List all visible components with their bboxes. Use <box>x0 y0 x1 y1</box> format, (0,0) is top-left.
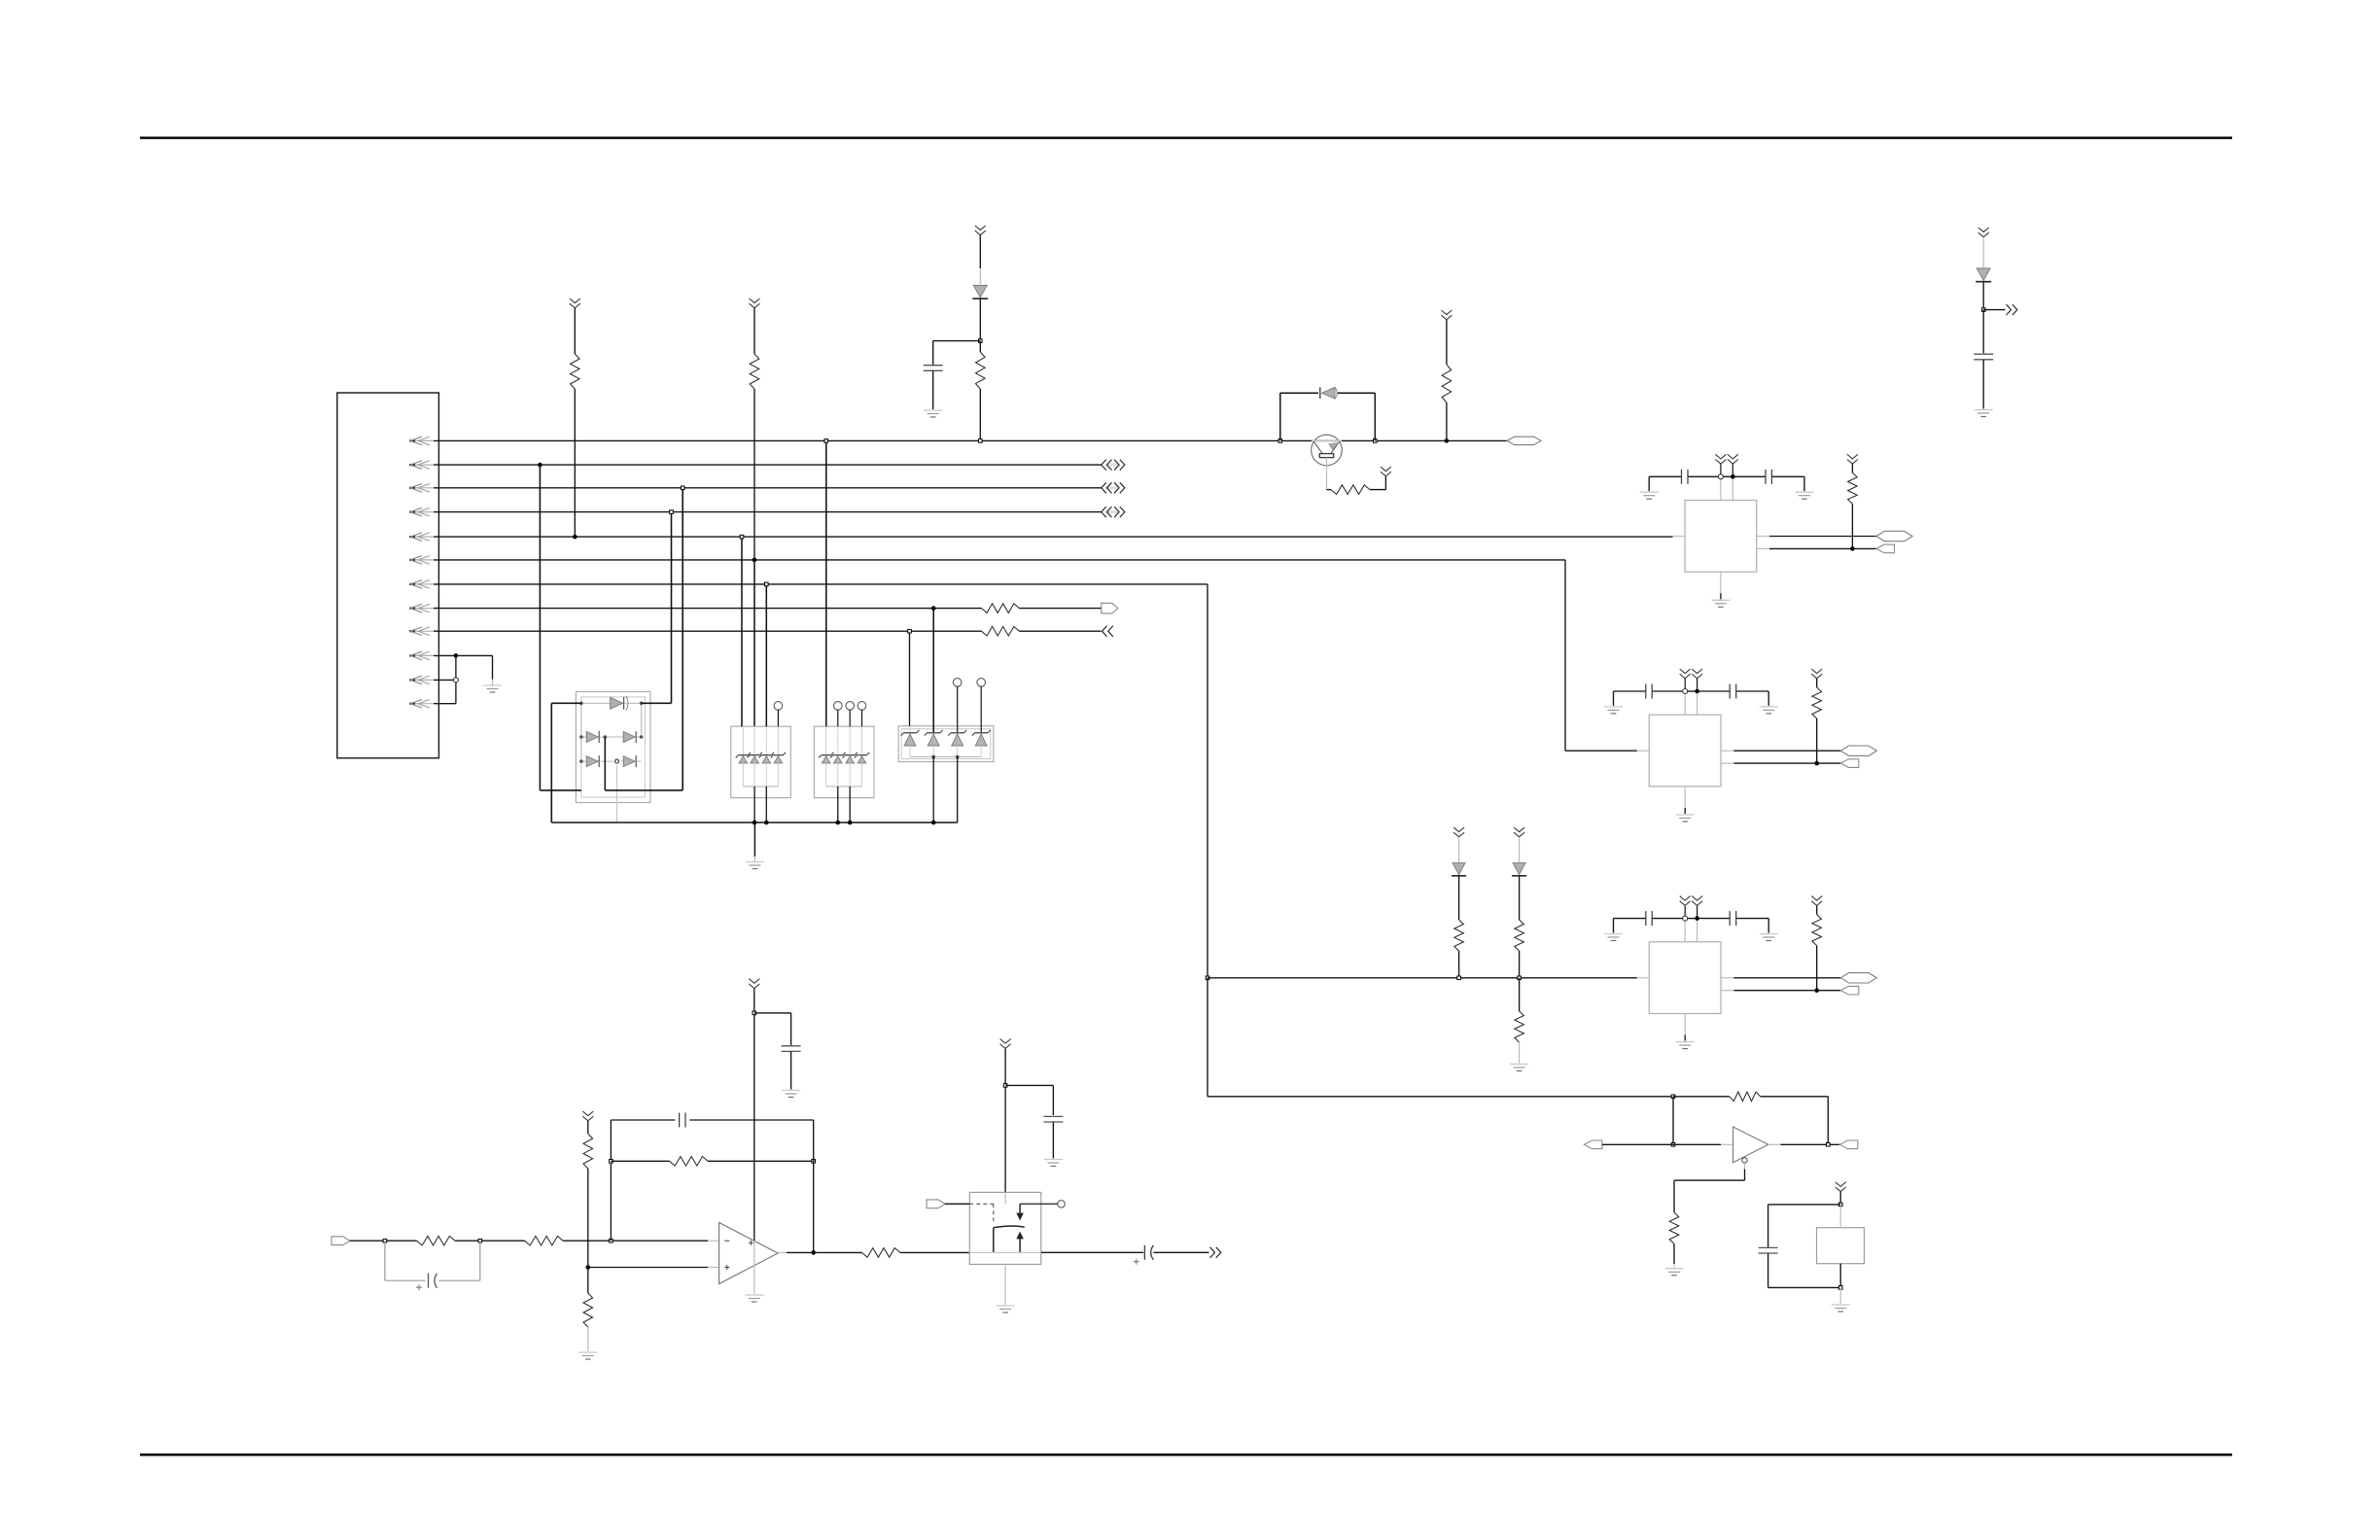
wire U4 fb vertical <box>610 1120 612 1241</box>
offpage connector net4 <box>1102 507 1125 517</box>
wire U5 minus input <box>1674 1163 1745 1180</box>
op-amp U4 <box>719 1223 779 1284</box>
wire bridge internal down <box>604 737 606 790</box>
diode D23 <box>1512 837 1526 876</box>
array ZA1 zener D12 <box>759 726 774 787</box>
junction ZA3 bus <box>931 821 936 825</box>
wire net6 (pin6 row) <box>434 559 1565 561</box>
wire gnd right U2 <box>1767 691 1769 706</box>
capacitor C9a <box>1646 684 1652 699</box>
wire net9 to ZA3 <box>909 631 911 732</box>
array ZA3 package <box>898 726 994 762</box>
wire net9 (pin9 row) <box>434 630 982 632</box>
junction net2 drop <box>538 463 542 468</box>
junction rail U3 b <box>1695 916 1699 921</box>
ground C5 <box>782 1091 800 1098</box>
switch SW1 contacts <box>969 1192 1065 1252</box>
switch SW1 body <box>969 1192 1041 1264</box>
ground bus symbol <box>746 862 764 869</box>
junction rail U3 a <box>1683 916 1688 921</box>
power arrow U1 b <box>1728 454 1738 464</box>
junction SW1 power <box>1003 1084 1007 1088</box>
pin 4 arrow <box>409 507 434 516</box>
wire U3 gnd stub <box>1684 1014 1686 1041</box>
array ZA2 rail <box>826 786 862 787</box>
wire pin10 to ground <box>456 655 493 684</box>
ground R20 <box>578 1352 597 1359</box>
wire U4 in c <box>563 1240 719 1242</box>
bridge diode D7 <box>605 731 641 743</box>
ground bus stem <box>753 822 755 861</box>
ground C6 <box>1044 1160 1063 1167</box>
wire U3 input stub <box>1637 977 1650 979</box>
power arrow R5 <box>1441 310 1452 320</box>
resistor R13 <box>1515 978 1524 1064</box>
ground U1 left <box>1640 492 1659 499</box>
wire U5 fb tap <box>1672 1097 1674 1145</box>
net tag U4 input <box>332 1237 350 1245</box>
junction node A <box>979 339 983 343</box>
wire net7 (pin7 row) <box>434 583 1207 585</box>
wire net8 to ZA3 <box>932 609 934 732</box>
junction rail U2 b <box>1695 689 1699 694</box>
array ZA2 zener D17 <box>855 726 869 787</box>
junction R3/net1 <box>979 439 983 443</box>
offpage connector net3 <box>1102 482 1125 493</box>
resistor R18 (U4 feedback) <box>611 1157 813 1167</box>
wire net2 (pin2 row) <box>434 464 1102 466</box>
power arrow D1 <box>975 226 986 235</box>
wire gnd left U2 <box>1613 691 1615 706</box>
wire U6 power <box>1839 1192 1841 1205</box>
nc pins ZA3 <box>953 679 985 732</box>
power arrow D23 <box>1514 827 1524 837</box>
wire U4 output <box>778 1251 861 1253</box>
junction U3 out2 <box>1814 988 1819 993</box>
net tag net1 <box>1507 437 1541 444</box>
IC U1 body <box>1685 501 1757 573</box>
wire U1 input stub <box>1673 536 1686 538</box>
wire net1 to ZA2 <box>825 440 827 726</box>
net tag U3 out1 <box>1840 973 1876 983</box>
wire C7 out <box>1153 1251 1208 1253</box>
IC U2 body <box>1649 715 1721 787</box>
wire ZA3 to bus <box>933 757 958 823</box>
wire bridge BR to net3 <box>605 488 682 790</box>
wire U4 in b <box>455 1240 525 1242</box>
bottom rule <box>140 1453 2232 1456</box>
IC U3 body <box>1649 942 1721 1014</box>
wire bridge TL to gnd bus <box>551 703 581 822</box>
junction net3 drop <box>681 486 684 490</box>
junction ZA1 bus b <box>764 821 769 825</box>
ground U3 bottom <box>1676 1042 1695 1049</box>
junction R1/pin5 <box>573 535 577 540</box>
resistor R14 (U5 feedback) <box>1673 1092 1828 1144</box>
offpage connector audio out <box>1210 1247 1221 1258</box>
ground U3 left <box>1604 934 1623 941</box>
capacitor C11 loop <box>1759 1205 1841 1288</box>
wire U4 power <box>753 989 755 1294</box>
pin 2 arrow <box>409 461 434 470</box>
nc pins ZA2 <box>834 702 866 727</box>
resistor R21 <box>862 1248 900 1258</box>
junction net7 corner <box>1206 976 1209 980</box>
junction U4 fb mid <box>610 1160 613 1164</box>
wire net5 (pin5 row) <box>434 536 1673 538</box>
power arrow U2 b <box>1692 669 1702 679</box>
diode D1 <box>972 235 988 298</box>
wire U2 out1 <box>1721 750 1840 752</box>
wire D2 loop <box>1280 393 1376 440</box>
ground U4 <box>745 1295 763 1302</box>
wire gnd left U1 <box>1648 476 1650 491</box>
ground bus <box>551 822 957 823</box>
resistor R4 (Q1 base) <box>1327 476 1386 494</box>
diode D3 <box>1976 237 1991 282</box>
capacitor C6 <box>1005 1085 1063 1158</box>
net tag U2 out1 <box>1840 746 1876 755</box>
transistor Q1 <box>1312 435 1343 489</box>
wire ZA1 to bus <box>754 787 766 822</box>
junction R12 bus <box>1518 976 1522 980</box>
wire U1 out2 <box>1757 547 1876 549</box>
wire U5 output <box>1768 1143 1840 1145</box>
pin 1 arrow <box>409 437 434 445</box>
wire pin7 to ZA1 <box>765 584 767 726</box>
wire bridge TR to net4 <box>642 512 672 704</box>
ground C1 <box>924 410 942 417</box>
junction rail U1 b <box>1731 474 1735 479</box>
power arrow R4 <box>1381 467 1391 476</box>
ground U2 left <box>1604 707 1623 714</box>
wire SW1 control <box>945 1204 994 1223</box>
junction ZA2 bus a <box>836 821 841 825</box>
bridge diode D9 <box>621 755 642 767</box>
wire SW1 gnd <box>1004 1264 1006 1305</box>
junction pin11 <box>453 678 458 682</box>
pin 6 arrow <box>409 556 434 565</box>
net tag U1 out1 <box>1876 531 1912 541</box>
wire net7 to U3 <box>1207 977 1637 979</box>
offpage connector B <box>2007 304 2017 315</box>
capacitor C10b <box>1730 911 1736 926</box>
junction U1 out2 <box>1850 546 1855 551</box>
connector J1 <box>337 393 439 758</box>
ground U3 right <box>1760 934 1778 941</box>
wire net7 vertical <box>1207 584 1208 978</box>
capacitor C7 (electrolytic) <box>1134 1245 1154 1265</box>
wire node A to C1 <box>933 341 981 365</box>
wire pin6 to array D4 <box>753 560 755 726</box>
wire U1 gnd stub <box>1720 572 1722 599</box>
bridge diode D5 (top zener) <box>581 696 642 711</box>
ground R13 <box>1510 1065 1528 1071</box>
top rule <box>140 136 2232 139</box>
junction net9 drop <box>908 629 912 633</box>
resistor R5 <box>1442 320 1452 440</box>
junction C3 right <box>478 1239 482 1242</box>
power arrow D3 <box>1978 227 1989 237</box>
capacitor C3 (electrolytic) <box>385 1241 480 1290</box>
junction U6 bottom <box>1838 1286 1842 1290</box>
power arrow R19 <box>582 1111 593 1121</box>
junction rail U1 a <box>1718 474 1723 479</box>
net tag U1 out2 <box>1876 544 1895 553</box>
ground U2 bottom <box>1676 815 1695 822</box>
ground U2 right <box>1760 707 1778 714</box>
wire U3 out1 <box>1721 977 1840 979</box>
junction Q1 right <box>1374 439 1378 443</box>
ground connector shield <box>483 685 502 692</box>
junction fb U5 left <box>1671 1095 1675 1099</box>
pin 5 arrow <box>409 533 434 542</box>
resistor R10 pull <box>1811 896 1822 991</box>
array ZA2 zener D15 <box>830 726 845 787</box>
capacitor C8a <box>1682 470 1689 484</box>
array ZA1 package <box>731 726 791 797</box>
wire SW1 power <box>1004 1049 1006 1193</box>
IC U6 body <box>1817 1228 1865 1264</box>
array ZA2 package <box>814 726 874 797</box>
wire U1 out1 <box>1757 536 1876 538</box>
resistor R16 <box>417 1236 455 1245</box>
wire U4 fb right vertical <box>813 1120 815 1252</box>
junction U6 top <box>1838 1203 1842 1207</box>
offpage connector net9 <box>1102 626 1113 637</box>
wire pin5 to ZA1 <box>741 537 743 726</box>
capacitor C8b <box>1766 470 1771 484</box>
net tag SW1 control <box>927 1200 945 1208</box>
ground U1 right <box>1795 492 1813 499</box>
power arrow R1 <box>570 298 580 308</box>
junction rail U2 a <box>1683 689 1688 694</box>
wire net1 (pin1 row) <box>434 439 1507 441</box>
wire U2 out2 <box>1721 762 1840 764</box>
capacitor C10a <box>1646 911 1652 926</box>
wire node B out <box>1983 309 2005 311</box>
wire ZA2 to bus <box>838 787 850 822</box>
resistor R19 <box>583 1121 593 1268</box>
junction ZA2 bus b <box>848 821 853 825</box>
junction U5 out <box>1827 1143 1831 1147</box>
wire D3 node <box>1982 282 1984 309</box>
wire net2 to bridge <box>540 465 581 790</box>
junction net8 drop <box>931 606 936 611</box>
junction U5 in <box>1671 1143 1675 1147</box>
diode D2 <box>1320 387 1337 399</box>
ground SW1 <box>997 1306 1015 1312</box>
pin 7 arrow <box>409 580 434 589</box>
resistor R1 <box>571 308 580 537</box>
junction U4 plus <box>586 1265 591 1270</box>
bridge BR1 package <box>576 691 650 802</box>
resistor R9 pull <box>1811 669 1822 763</box>
wire gnd right U1 <box>1803 476 1805 491</box>
junction net4 drop <box>670 510 674 514</box>
resistor R17 <box>525 1236 564 1245</box>
net tag net8 out <box>1102 603 1118 613</box>
junction R5/net1 <box>1445 438 1450 443</box>
pin 3 arrow <box>409 484 434 493</box>
wire pin11 tie <box>434 679 456 681</box>
junction C3 left <box>383 1239 387 1242</box>
resistor R8 pull <box>1847 454 1858 548</box>
array ZA3 zener D18 <box>901 730 920 746</box>
wire D1 to node <box>979 299 981 341</box>
wire U6 stubs <box>1839 1205 1841 1288</box>
nc pin ZA1 <box>774 702 783 727</box>
wire R6 out <box>1019 608 1101 610</box>
junction net1 drop <box>824 439 828 443</box>
junction R11 bus <box>1457 976 1461 980</box>
wire power stubs U1 <box>1721 464 1732 500</box>
resistor R3 <box>976 341 986 441</box>
IC U3 bypass rail <box>1614 918 1769 920</box>
pin 11 arrow <box>409 676 434 684</box>
wire power stubs U3 <box>1685 906 1697 942</box>
junction node B <box>1981 308 1985 312</box>
junction U4 out <box>811 1250 816 1255</box>
junction U4 power <box>752 1011 756 1015</box>
capacitor C2 <box>1974 310 1993 409</box>
array ZA1 rail <box>743 786 778 787</box>
capacitor C1 <box>924 366 943 409</box>
diode D22 <box>1452 837 1466 876</box>
junction R2/pin6 <box>752 558 757 563</box>
array ZA2 zener D14 <box>819 726 833 787</box>
power arrow U3 b <box>1692 896 1702 906</box>
wire pins10-12 vertical <box>455 655 457 703</box>
net tag U5 input <box>1584 1140 1602 1149</box>
power arrow U4 <box>749 979 759 989</box>
array ZA3 zener D21 <box>972 730 991 746</box>
wire U5 input <box>1602 1143 1733 1145</box>
junction U4 fb <box>610 1239 613 1242</box>
array ZA2 zener D16 <box>843 726 857 787</box>
ground U1 bottom <box>1711 600 1730 607</box>
net tag U2 out2 <box>1840 759 1859 768</box>
op-amp U5 <box>1733 1127 1768 1163</box>
wire U3 out2 <box>1721 990 1840 992</box>
bridge internal nets <box>579 702 643 823</box>
ground R15 <box>1665 1269 1684 1276</box>
wire net3 (pin3 row) <box>434 487 1102 489</box>
junction Q1 left <box>1278 439 1282 443</box>
power arrow D22 <box>1453 827 1464 837</box>
wire net6 route <box>1565 560 1637 751</box>
net tag U5 output <box>1839 1140 1858 1149</box>
array ZA1 zener D11 <box>747 726 761 787</box>
array ZA3 zener D19 <box>925 730 943 746</box>
resistor R15 <box>1669 1180 1679 1268</box>
wire U2 gnd stub <box>1684 787 1686 814</box>
ground C2 <box>1975 410 1993 417</box>
junction R18 right <box>812 1160 816 1164</box>
junction U2 out2 <box>1814 761 1819 766</box>
pin 12 arrow <box>409 699 434 708</box>
ground U6 <box>1832 1305 1850 1312</box>
capacitor C9b <box>1730 684 1736 699</box>
capacitor C4 (U4 feedback) <box>611 1113 813 1128</box>
power arrow R2 <box>750 298 760 308</box>
wire gnd right U3 <box>1767 919 1769 933</box>
wire R21 to SW1 <box>900 1251 969 1253</box>
capacitor C5 <box>754 1013 801 1090</box>
wire pin12 tie <box>434 703 456 705</box>
junction pin7 drop <box>765 582 769 586</box>
pin 10 arrow <box>409 651 434 660</box>
IC U1 bypass rail <box>1649 475 1804 477</box>
wire net8 (pin8 row) <box>434 608 982 610</box>
pin 9 arrow <box>409 627 434 636</box>
offpage connector net2 <box>1102 460 1125 471</box>
resistor R7 <box>982 626 1020 636</box>
wire U4 plus input <box>588 1267 719 1269</box>
resistor R6 <box>982 604 1020 613</box>
power arrow U1 a <box>1715 454 1726 464</box>
resistor R20 <box>583 1268 593 1352</box>
wire U6 gnd <box>1839 1287 1841 1304</box>
wire net4 (pin4 row) <box>434 511 1102 513</box>
bridge diode D6 <box>581 731 605 743</box>
array ZA3 zener D20 <box>948 730 966 746</box>
wire U4 in a <box>350 1240 417 1242</box>
power arrow U2 a <box>1680 669 1691 679</box>
array ZA1 zener D10 <box>736 726 751 787</box>
array ZA3 rail <box>910 746 981 758</box>
wire gnd left U3 <box>1613 919 1615 933</box>
wire R7 out <box>1019 630 1101 632</box>
resistor R11 <box>1454 876 1464 978</box>
net tag U3 out2 <box>1840 986 1859 995</box>
array ZA1 zener D13 <box>771 726 786 787</box>
junction ZA1 bus a <box>752 821 757 825</box>
junction pin5 drop <box>740 535 744 539</box>
power arrow SW1 <box>1000 1039 1011 1049</box>
power arrow U3 a <box>1680 896 1691 906</box>
pin 8 arrow <box>409 604 434 612</box>
junction pin10 <box>454 653 459 658</box>
wire power stubs U2 <box>1685 679 1697 715</box>
wire U2 input stub <box>1637 750 1650 752</box>
resistor R12 <box>1515 876 1524 978</box>
wire SW1 out <box>1041 1251 1143 1253</box>
power arrow U6 <box>1836 1182 1846 1192</box>
wire net7 down <box>1207 978 1673 1097</box>
wire pin10 tie <box>434 654 456 656</box>
resistor R2 <box>750 308 759 560</box>
bridge diode D8 <box>581 755 612 767</box>
IC U2 bypass rail <box>1614 690 1769 692</box>
